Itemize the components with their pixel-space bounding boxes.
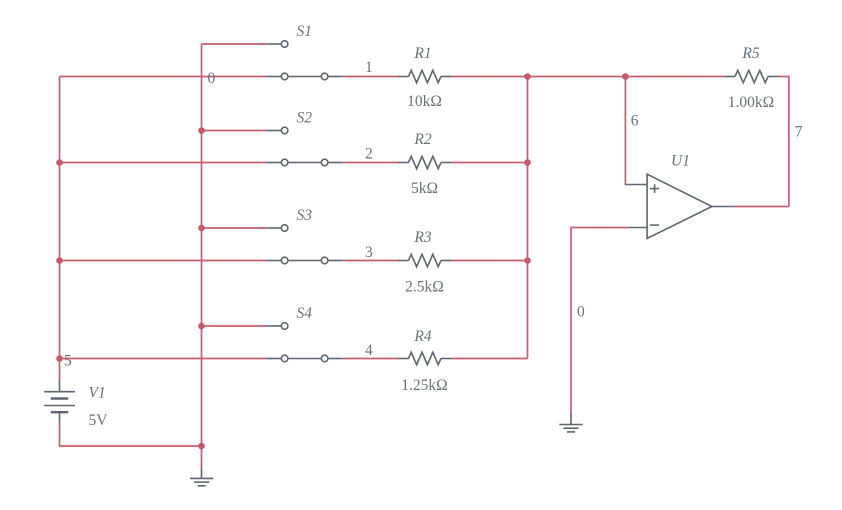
- svg-text:5kΩ: 5kΩ: [411, 180, 438, 197]
- svg-text:S1: S1: [297, 23, 313, 40]
- svg-text:5: 5: [64, 353, 72, 370]
- wire row1 right segment: [451, 76, 528, 78]
- wire row4 node 4 segment: [342, 358, 398, 360]
- svg-text:4: 4: [365, 342, 373, 359]
- value V1 5V: [89, 412, 109, 429]
- node 7 label: [795, 123, 803, 140]
- wire row2 left segment: [60, 162, 267, 164]
- node 3 label: [365, 244, 373, 261]
- wire S1 branch: [202, 43, 267, 45]
- switch S4: [266, 323, 342, 362]
- svg-text:2: 2: [365, 145, 373, 162]
- junction row4 left node 5: [56, 355, 63, 362]
- resistor R1: [398, 70, 451, 82]
- label U1: [671, 153, 690, 170]
- svg-text:0: 0: [208, 70, 216, 87]
- label S4: [297, 305, 313, 322]
- label S3: [297, 207, 313, 224]
- svg-text:R4: R4: [413, 328, 431, 345]
- ground bus bottom: [190, 468, 213, 486]
- svg-text:10kΩ: 10kΩ: [407, 93, 442, 110]
- label S2: [297, 110, 313, 127]
- junction bottom bus: [198, 443, 205, 450]
- wire row4 left segment: [60, 358, 267, 360]
- label R5: [741, 45, 759, 62]
- node 6 label: [631, 113, 639, 130]
- svg-text:6: 6: [631, 113, 639, 130]
- junction row2 left: [56, 159, 63, 166]
- wire row3 right segment: [451, 260, 528, 262]
- wire summing node to R5: [528, 76, 725, 78]
- node 5 label: [64, 353, 72, 370]
- wire summing bus vertical right: [527, 77, 529, 359]
- wire row2 node 2 segment: [342, 162, 398, 164]
- svg-text:S2: S2: [297, 110, 313, 127]
- ground op-amp input: [559, 414, 582, 432]
- wire battery bottom to ground bus: [60, 423, 202, 446]
- wire left 5V rail vertical: [59, 77, 61, 381]
- wire op-amp output: [734, 206, 789, 208]
- junction row2 summing bus: [524, 159, 531, 166]
- junction row3 summing bus: [524, 257, 531, 264]
- wire S2 branch: [202, 130, 267, 132]
- junction S2 branch: [198, 127, 205, 134]
- node 4 label: [365, 342, 373, 359]
- svg-text:S4: S4: [297, 305, 313, 322]
- svg-text:1.25kΩ: 1.25kΩ: [401, 377, 447, 394]
- resistor R2: [398, 156, 451, 168]
- node 0 label bottom: [577, 304, 585, 321]
- svg-text:1: 1: [365, 59, 373, 76]
- wire ground bus vertical: [201, 44, 203, 468]
- wire inverting input to ground: [571, 228, 627, 414]
- junction S4 branch: [198, 323, 205, 330]
- svg-text:0: 0: [577, 304, 585, 321]
- wire feedback to noninverting input: [624, 77, 626, 185]
- svg-text:5V: 5V: [89, 412, 109, 429]
- wire row1 node 1 segment: [342, 76, 398, 78]
- label S1: [297, 23, 313, 40]
- svg-text:R5: R5: [741, 45, 759, 62]
- svg-text:2.5kΩ: 2.5kΩ: [405, 279, 444, 296]
- junction S3 branch: [198, 225, 205, 232]
- wire row3 node 3 segment: [342, 260, 398, 262]
- wire row4 right segment: [451, 358, 528, 360]
- resistor R5: [725, 70, 778, 82]
- svg-text:3: 3: [365, 244, 373, 261]
- wire S3 branch: [202, 227, 267, 229]
- label R1: [413, 45, 431, 62]
- value R2 5k: [411, 180, 438, 197]
- label R4: [413, 328, 431, 345]
- switch S1: [266, 41, 342, 80]
- value R1 10k: [407, 93, 442, 110]
- svg-text:S3: S3: [297, 207, 313, 224]
- wire row3 left segment: [60, 260, 267, 262]
- wire R5 to output corner: [778, 77, 789, 207]
- junction feedback node: [622, 73, 629, 80]
- battery V1: [44, 381, 75, 423]
- node 2 label: [365, 145, 373, 162]
- svg-text:R2: R2: [413, 131, 431, 148]
- svg-text:R3: R3: [413, 229, 431, 246]
- wire row2 right segment: [451, 162, 528, 164]
- switch S3: [266, 225, 342, 264]
- wire row1 left segment: [60, 76, 267, 78]
- resistor R4: [398, 352, 451, 364]
- junction row3 left: [56, 257, 63, 264]
- value R5 1.00k: [728, 94, 774, 111]
- switch S2: [266, 127, 342, 166]
- svg-text:7: 7: [795, 123, 803, 140]
- svg-text:V1: V1: [89, 385, 106, 402]
- resistor R3: [398, 254, 451, 266]
- svg-text:U1: U1: [671, 153, 690, 170]
- value R4 1.25k: [401, 377, 447, 394]
- value R3 2.5k: [405, 279, 444, 296]
- label V1: [89, 385, 106, 402]
- op-amp U1: [625, 174, 734, 238]
- label R3: [413, 229, 431, 246]
- wire S4 branch: [202, 325, 267, 327]
- node 0 label top: [208, 70, 216, 87]
- svg-text:R1: R1: [413, 45, 431, 62]
- junction row1 summing bus: [524, 73, 531, 80]
- label R2: [413, 131, 431, 148]
- svg-text:1.00kΩ: 1.00kΩ: [728, 94, 774, 111]
- node 1 label: [365, 59, 373, 76]
